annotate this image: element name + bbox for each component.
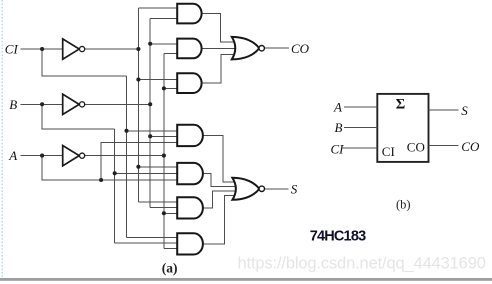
wire A' to AND3 input2 (164, 87, 178, 89)
wire A to block (344, 106, 377, 108)
svg-text:B: B (9, 97, 17, 112)
wire A branch down (42, 156, 178, 180)
wire A' to AND6 input3 (164, 212, 178, 214)
svg-text:Σ: Σ (396, 97, 405, 113)
wire CI' inverter output (85, 48, 138, 50)
node B' bus junction (148, 102, 152, 106)
node B input junction (40, 102, 44, 106)
node A' to AND3 junction (162, 86, 166, 90)
wire AND7 output to NOR-S (203, 195, 238, 243)
wire CI input (20, 48, 62, 50)
wire AND6 output to NOR-S (203, 191, 237, 208)
node CI input junction (40, 47, 44, 51)
and-gate AND6 (177, 197, 203, 218)
wire CI to AND4 input1 (127, 130, 178, 132)
svg-text:CO: CO (291, 41, 310, 56)
and-gate AND1 (177, 4, 201, 24)
node CI' to AND5 junction (136, 165, 140, 169)
wire AND2 output to NOR-CO (202, 47, 237, 49)
wire CO output (264, 47, 289, 49)
wire B to block (344, 127, 377, 129)
wire CI' bus vertical (137, 8, 139, 202)
and-gate AND2 (177, 39, 201, 59)
and-gate AND5 (177, 163, 203, 184)
wire A' bus vertical (163, 53, 165, 248)
node CI' to AND3 junction (136, 77, 140, 81)
wire CI' to AND6 input1 (138, 201, 177, 203)
node B to AND5 junction (113, 171, 117, 175)
svg-text:74HC183: 74HC183 (310, 229, 366, 245)
wire B' inverter output (85, 103, 150, 105)
wire CI' to AND5 input1 (138, 166, 177, 168)
wire AND1 output to NOR-CO (202, 14, 238, 43)
inverter G1 (CI) (63, 39, 85, 59)
wire CI branch down (42, 49, 126, 76)
wire B' to AND2 input1 (150, 43, 178, 45)
svg-text:(a): (a) (162, 261, 178, 276)
block symbol U1 74HC183 (377, 94, 428, 162)
svg-text:https://blog.csdn.net/qq_44431: https://blog.csdn.net/qq_44431690 (238, 255, 486, 273)
inverter G2 (B) (63, 94, 85, 114)
nor-gate NOR-CO (232, 37, 265, 60)
wire B' to AND1 input2 (150, 17, 178, 19)
wire B branch down (42, 104, 115, 129)
wire S from block (429, 109, 459, 111)
wire CI to block (342, 147, 377, 149)
svg-text:S: S (291, 182, 298, 197)
wire A' inverter output (85, 155, 164, 157)
svg-text:CI: CI (382, 144, 395, 159)
wire AND4 output to NOR-S (203, 136, 238, 182)
wire A riser (101, 142, 178, 180)
wire AND3 output to NOR-CO (202, 55, 238, 84)
and-gate AND7 (177, 233, 203, 254)
decorative bottom gray divider (0, 278, 492, 281)
node CI to AND4 junction (124, 129, 128, 133)
and-gate AND4 (177, 125, 203, 146)
wire B input (20, 103, 62, 105)
svg-text:(b): (b) (396, 197, 411, 211)
node A' bus junction (162, 154, 166, 158)
wire B' to AND6 input2 (150, 207, 178, 209)
wire A input (20, 155, 62, 157)
wire S output (265, 188, 289, 190)
wire B' bus vertical (149, 18, 151, 207)
svg-text:CO: CO (407, 139, 425, 154)
svg-text:CI: CI (5, 41, 19, 56)
wire A' to AND7 input3 (164, 247, 178, 249)
svg-text:CO: CO (461, 139, 480, 154)
node B' to AND2 junction (148, 42, 152, 46)
svg-text:B: B (335, 120, 343, 135)
node A riser junction (99, 178, 103, 182)
inverter G3 (A) (63, 146, 85, 166)
svg-text:A: A (333, 100, 342, 115)
svg-text:S: S (461, 103, 468, 118)
wire CI' to AND3 input1 (138, 79, 177, 81)
wire CI to AND7 input1 (127, 237, 178, 239)
node A' to AND6 junction (162, 211, 166, 215)
wire AND5 output to NOR-S (203, 174, 237, 187)
wire B to AND7 input2 (115, 242, 178, 244)
wire CO from block (429, 145, 459, 147)
wire CI' to AND1 input1 (138, 7, 177, 9)
wire B bus vertical (114, 129, 116, 243)
wire B' to AND4 input2 (150, 135, 178, 137)
node CI' bus junction (136, 47, 140, 51)
nor-gate NOR-S (232, 178, 264, 200)
svg-text:CI: CI (331, 142, 345, 157)
wire B to AND5 input2 (115, 172, 178, 174)
decorative left dashed blue line (1, 0, 3, 278)
and-gate AND3 (177, 73, 201, 93)
node A input junction (40, 154, 44, 158)
node B' to AND4 junction (148, 134, 152, 138)
wire A' to AND2 input2 (164, 52, 178, 54)
svg-text:A: A (8, 148, 17, 163)
wire CI bus vertical (126, 76, 128, 237)
